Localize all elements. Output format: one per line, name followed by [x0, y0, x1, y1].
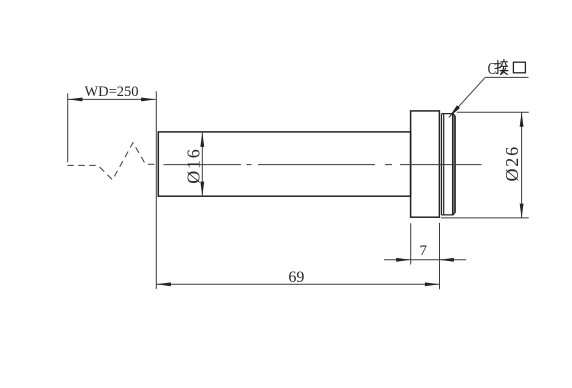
WD left extension line [67, 93, 69, 162]
svg-text:Ø26: Ø26 [502, 145, 522, 181]
centerline segment 3 [400, 164, 482, 166]
svg-text:WD=250: WD=250 [84, 84, 138, 100]
dia16 dimension line [201, 132, 203, 196]
WD right arrowhead [141, 97, 156, 101]
centerline dot 1 [247, 164, 252, 166]
svg-text:7: 7 [419, 243, 427, 259]
C-mount ring bottom edge [442, 212, 456, 215]
69 right arrowhead [425, 282, 440, 286]
dia16 top arrowhead [200, 132, 204, 147]
dia26 bottom arrowhead [520, 204, 524, 219]
C-mount ring groove line 2 [443, 114, 445, 215]
C-mount ring right outer line [454, 116, 456, 213]
C-mount leader underline [485, 76, 528, 78]
C-mount leader arrowhead [449, 105, 460, 117]
C-mount ring right inner line [452, 114, 454, 215]
dia16 bottom arrowhead [200, 182, 204, 197]
C-mount leader line [449, 77, 485, 117]
dashed break line (working distance zigzag) [67, 143, 158, 180]
left vertical extension line (tube face, WD and 69) [155, 91, 157, 289]
dia26 bottom extension line [441, 217, 529, 219]
7 right arrowhead (outside) [439, 258, 454, 262]
C-mount ring groove line 1 [441, 114, 443, 215]
centerline segment 1 [164, 164, 242, 166]
centerline segment 2 [258, 164, 375, 166]
hanzi jie (interface char 1) strokes [495, 60, 508, 75]
dia26 top arrowhead [520, 112, 524, 127]
69 dimension line [156, 283, 439, 285]
7 dim left extension line [410, 223, 412, 264]
tube body outline [158, 132, 410, 196]
69 left arrowhead [156, 282, 171, 286]
7 left arrowhead (outside) [396, 258, 411, 262]
dia26 top extension line [457, 111, 529, 113]
svg-text:Ø16: Ø16 [183, 147, 203, 183]
hanzi kou (interface char 2) strokes [513, 62, 525, 73]
centerline dot 2 [385, 164, 392, 166]
7 and 69 right extension line [439, 223, 441, 289]
svg-text:69: 69 [288, 269, 304, 286]
WD=250 dimension line [68, 98, 156, 100]
WD left arrowhead [68, 97, 83, 101]
C-mount ring top edge [442, 114, 456, 117]
dia26 dimension line [521, 112, 523, 218]
flange outline [411, 111, 440, 217]
7 dimension line [384, 259, 466, 261]
